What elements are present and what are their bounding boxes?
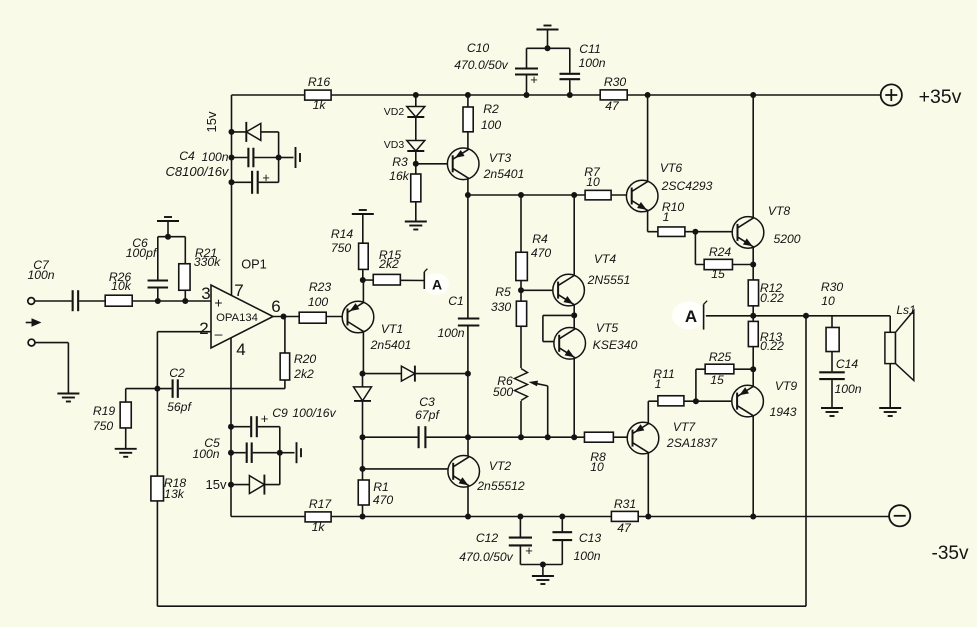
svg-text:100: 100 <box>308 295 329 309</box>
svg-text:OP1: OP1 <box>241 257 267 272</box>
wire VT3 base <box>416 163 453 165</box>
capacitor C1 <box>457 318 481 327</box>
wire input 2 lead <box>35 342 69 344</box>
node supply cluster right <box>276 155 282 161</box>
svg-text:2n55512: 2n55512 <box>476 479 525 493</box>
ground C4 cluster <box>296 147 301 168</box>
svg-text:A: A <box>432 277 442 293</box>
label R20 <box>294 352 317 366</box>
wire VT1 collector to C1 diode run <box>363 373 468 375</box>
wire C6 lower leg <box>157 288 159 302</box>
svg-text:2n5401: 2n5401 <box>370 338 412 352</box>
value R15 2k2 <box>378 257 399 271</box>
label R11 <box>653 367 674 381</box>
wire VT3 collector to mid rail <box>467 179 469 195</box>
potentiometer R6 <box>514 368 528 401</box>
svg-text:KSE340: KSE340 <box>593 338 638 352</box>
svg-text:C8100/16v: C8100/16v <box>166 164 230 179</box>
wire C6/R21 node runs <box>158 236 186 238</box>
value R1 470 <box>373 493 394 507</box>
node mid rail VT4 <box>571 192 577 198</box>
svg-text:R31: R31 <box>614 497 636 511</box>
node A output halo <box>672 302 706 330</box>
label VT1 <box>381 322 403 336</box>
node VT8 collector rail <box>750 92 756 98</box>
wire R21 lower leg <box>184 290 186 301</box>
wire C13 lower leg <box>561 540 563 565</box>
label VT3 <box>489 151 512 165</box>
wire C12-C13 ground link <box>520 564 562 566</box>
wire output node A rail <box>704 315 891 317</box>
svg-text:C4: C4 <box>179 149 195 163</box>
value VT6 2SC4293 <box>661 179 713 193</box>
resistor R26 <box>105 295 132 306</box>
svg-text:C10: C10 <box>467 41 490 55</box>
label VT5 <box>596 321 619 335</box>
value VT9 1943 <box>769 405 796 419</box>
svg-text:47: 47 <box>617 521 632 535</box>
label R30 top <box>604 75 627 89</box>
node C2 R18 pin2 <box>154 386 160 392</box>
value C5 100n <box>192 447 219 461</box>
label C9 <box>272 406 288 420</box>
svg-text:C14: C14 <box>836 357 859 371</box>
value VT3 2n5401 <box>483 167 525 181</box>
svg-text:C1: C1 <box>448 294 464 308</box>
value R25 15 <box>710 373 724 387</box>
label VT2 <box>489 459 512 473</box>
value VT5 KSE340 <box>593 338 638 352</box>
value C11 <box>578 56 605 70</box>
node VT6 collector rail <box>645 92 651 98</box>
node R21 input <box>182 298 188 304</box>
node R11 R25 <box>693 398 699 404</box>
wire op-amp output <box>273 316 348 318</box>
plus C8 <box>262 170 270 185</box>
plus C10 <box>530 72 538 87</box>
op-amp U1 OPA134 triangle <box>211 285 273 348</box>
diode VD3 <box>407 141 425 152</box>
diode supply -15v <box>249 475 264 495</box>
pin 6 label <box>271 297 280 316</box>
label C2 <box>169 366 185 380</box>
capacitor C4 <box>247 147 254 169</box>
svg-text:VT1: VT1 <box>381 322 403 336</box>
node bias left end <box>360 434 366 440</box>
svg-text:R30: R30 <box>604 75 627 89</box>
value R11 1 <box>655 377 662 391</box>
svg-text:1k: 1k <box>312 520 326 534</box>
svg-text:+: + <box>214 295 222 311</box>
node diode run right <box>465 371 471 377</box>
node A output tick <box>704 301 708 330</box>
wire R12 vertical <box>752 265 754 316</box>
wire op-amp pin4 vertical <box>230 338 232 517</box>
svg-text:16k: 16k <box>389 169 410 183</box>
capacitor C3 <box>418 425 427 449</box>
value R17 1k <box>312 520 326 534</box>
svg-text:470.0/50v: 470.0/50v <box>459 550 513 564</box>
label R16 <box>308 75 331 89</box>
svg-text:100n: 100n <box>573 549 600 563</box>
value R31 47 <box>617 521 632 535</box>
label C4 <box>179 149 195 163</box>
svg-text:67pf: 67pf <box>415 408 440 422</box>
wire C10 leg <box>526 48 528 95</box>
wire feedback bottom run <box>157 605 806 607</box>
wire PSU ground stem <box>542 565 544 576</box>
wire pin2 down to C2 node <box>156 332 158 389</box>
label C7 <box>33 258 50 272</box>
wire speaker bottom leg <box>889 364 891 408</box>
svg-text:330k: 330k <box>194 255 221 269</box>
label C14 <box>836 357 859 371</box>
resistor R30 top <box>600 90 627 100</box>
label VT6 <box>660 161 683 175</box>
ground R3 <box>405 222 427 230</box>
svg-text:R5: R5 <box>495 285 511 299</box>
resistor R25 <box>705 364 734 374</box>
svg-text:2n5401: 2n5401 <box>483 167 525 181</box>
svg-text:1: 1 <box>655 377 662 391</box>
svg-text:1k: 1k <box>313 98 327 112</box>
value R5 330 <box>491 300 512 314</box>
wire C5 link <box>231 452 280 454</box>
label C11 <box>579 42 600 56</box>
svg-text:2SA1837: 2SA1837 <box>666 436 718 450</box>
wire C6 upper leg <box>157 237 159 281</box>
value VT8 5200 <box>773 232 800 246</box>
plus C12 <box>525 543 533 558</box>
node bias R6 <box>518 434 524 440</box>
wire VT2 base lead <box>363 468 454 470</box>
svg-text:330: 330 <box>491 300 512 314</box>
ground R14 <box>352 210 374 218</box>
value R30 top 47 <box>605 99 620 113</box>
value VT4 2N5551 <box>587 273 631 287</box>
wire R14 lower leg <box>362 269 364 280</box>
value VT1 2n5401 <box>370 338 412 352</box>
node bias VT5 emitter <box>571 434 577 440</box>
svg-text:750: 750 <box>331 241 352 255</box>
wire feedback vertical right <box>805 316 807 606</box>
wire R6 wiper drop <box>547 386 549 437</box>
node rail VT7 collector <box>645 514 651 520</box>
wire speaker top leg <box>889 316 891 333</box>
node C12 C13 ground <box>540 562 546 568</box>
svg-text:100n: 100n <box>437 326 464 340</box>
wire VT9 collector <box>752 416 754 517</box>
node diode run left <box>360 371 366 377</box>
terminal -35v <box>889 505 910 526</box>
svg-text:+: + <box>530 72 538 87</box>
wire R24 run <box>695 264 753 266</box>
node VD3-R3-VT3 base <box>413 161 419 167</box>
value R7 10 <box>586 175 600 189</box>
node mid rail R4 <box>518 192 524 198</box>
label R17 <box>309 497 333 511</box>
node R14 R15 VT1 emitter <box>360 277 366 283</box>
svg-text:R30: R30 <box>821 280 844 294</box>
wire input 2 ground drop <box>67 343 69 393</box>
svg-text:VD2: VD2 <box>384 106 405 118</box>
wire R19 to ground <box>125 428 127 448</box>
node rail C12 <box>517 514 523 520</box>
value C3 67pf <box>415 408 440 422</box>
wire C13 upper leg <box>561 517 563 533</box>
resistor R15 <box>373 274 400 285</box>
label R1 <box>373 480 389 494</box>
label +35v <box>919 86 962 108</box>
terminal +35v <box>881 84 902 105</box>
capacitor C13 <box>551 531 573 541</box>
wire VT4 base lead <box>521 289 558 291</box>
ground C14 <box>821 408 843 416</box>
node output feedback <box>803 313 809 319</box>
op-amp label OP1 <box>241 257 267 272</box>
node C6 R21 ground <box>165 234 171 240</box>
wire bottom -35v rail <box>231 516 889 518</box>
pin 7 label <box>234 281 243 300</box>
wire lower cluster right link <box>279 427 281 485</box>
svg-text:10k: 10k <box>111 279 132 293</box>
svg-text:0.22: 0.22 <box>760 291 784 305</box>
resistor R17 <box>305 512 331 522</box>
label R13 <box>760 330 783 344</box>
svg-text:13k: 13k <box>164 487 185 501</box>
wire VT4 collector <box>573 195 575 276</box>
diode supply +15v <box>246 122 260 142</box>
ground R19 <box>115 449 137 457</box>
wire VT8 collector <box>752 95 754 218</box>
capacitor C9 electrolytic <box>250 415 258 438</box>
label R24 <box>709 245 732 259</box>
label R2 <box>483 102 499 116</box>
wire R25 to R11 node <box>695 369 697 401</box>
transistor VT9 1943 <box>732 385 764 417</box>
diode VD2 <box>407 107 425 118</box>
pin 3 label <box>201 284 210 303</box>
wire R13 vertical <box>752 316 754 369</box>
svg-text:15v: 15v <box>206 477 227 492</box>
resistor R2 <box>463 107 473 132</box>
svg-text:3: 3 <box>201 284 210 303</box>
transistor VT2 2n5551 <box>448 456 480 488</box>
svg-text:C9: C9 <box>272 406 288 420</box>
node VD2 top rail <box>413 92 419 98</box>
value R3 16k <box>389 169 410 183</box>
value C7 100n <box>27 268 54 282</box>
wire R30 output branch <box>831 316 833 372</box>
capacitor C11 <box>559 73 582 80</box>
wire C6 ground stem <box>167 225 169 237</box>
value R10 1 <box>663 210 670 224</box>
svg-text:4: 4 <box>236 340 245 359</box>
svg-text:–: – <box>215 326 223 342</box>
node VT2 base <box>360 466 366 472</box>
wire C4 link <box>232 157 279 159</box>
transistor VT4 2N5551 <box>553 274 585 306</box>
value R4 470 <box>531 246 552 260</box>
wire C14 lower leg <box>831 379 833 407</box>
wire R2 / VT3 emitter vertical <box>467 95 469 149</box>
svg-text:1943: 1943 <box>769 405 796 419</box>
svg-text:2SC4293: 2SC4293 <box>661 179 713 193</box>
transistor VT7 2SA1837 <box>627 422 659 454</box>
capacitor C10 electrolytic <box>514 68 539 76</box>
resistor R1 <box>358 480 369 505</box>
resistor R19 <box>120 402 131 428</box>
node op-amp output R20 <box>281 314 287 320</box>
resistor R20 <box>280 353 290 380</box>
pin 4 label <box>236 340 245 359</box>
resistor R8 <box>584 432 613 442</box>
value R12 0.22 <box>760 291 784 305</box>
node R13 VT9 emitter <box>750 366 756 372</box>
value C6 100pf <box>126 246 158 260</box>
svg-text:C12: C12 <box>476 531 499 545</box>
svg-text:15: 15 <box>711 267 725 281</box>
wire R4 branch vertical <box>520 195 522 437</box>
wire left supply rail to op-amp pin 7 <box>231 95 233 296</box>
wire VT7 emitter <box>647 401 649 423</box>
svg-text:+35v: +35v <box>919 86 962 108</box>
node lower cluster right <box>277 450 283 456</box>
svg-text:Ls1: Ls1 <box>896 303 915 317</box>
svg-text:VD3: VD3 <box>384 139 405 151</box>
ground C10 C11 <box>537 26 559 34</box>
wire supply cluster right link top <box>278 132 280 182</box>
svg-text:56pf: 56pf <box>167 400 192 414</box>
wire R15 run <box>363 279 425 282</box>
svg-text:+: + <box>261 411 269 426</box>
svg-text:7: 7 <box>234 281 243 300</box>
node C10 rail <box>524 92 530 98</box>
capacitor C7 <box>72 289 80 312</box>
svg-text:15: 15 <box>710 373 724 387</box>
resistor R31 <box>611 511 638 521</box>
resistor R10 <box>658 227 685 237</box>
wire C4 ground tap <box>279 157 294 159</box>
svg-text:C2: C2 <box>169 366 185 380</box>
svg-text:R4: R4 <box>532 232 548 246</box>
svg-text:1: 1 <box>663 210 670 224</box>
svg-text:+: + <box>262 170 270 185</box>
input signal arrow <box>26 318 42 326</box>
svg-text:0.22: 0.22 <box>760 339 784 353</box>
node VT8 emitter R24 <box>750 262 756 268</box>
value R18 13k <box>164 487 185 501</box>
wire VT5 base lead <box>543 341 559 343</box>
svg-text:VT4: VT4 <box>594 252 617 266</box>
resistor R21 <box>179 264 190 291</box>
wire C5 ground tap <box>280 452 295 454</box>
ground PSU C12 C13 <box>532 576 554 584</box>
svg-text:470.0/50v: 470.0/50v <box>454 58 508 72</box>
value R8 10 <box>590 460 604 474</box>
wire C9 link <box>231 426 280 428</box>
input terminal 1 <box>28 298 35 305</box>
svg-text:A: A <box>685 307 697 326</box>
label R15 <box>379 248 402 262</box>
wire R11 run <box>648 400 737 402</box>
node rail VT9 collector <box>750 514 756 520</box>
node supply caps ground <box>545 45 551 51</box>
svg-text:100/16v: 100/16v <box>292 406 336 420</box>
label C8 <box>166 164 230 179</box>
wire VT6 collector <box>647 95 649 181</box>
svg-text:100n: 100n <box>27 268 54 282</box>
label A mid <box>432 277 442 293</box>
label -35v <box>932 543 969 564</box>
node R4 R5 VT4 base <box>518 287 524 293</box>
wire input 1 to C7 <box>35 300 73 302</box>
svg-text:10: 10 <box>590 460 604 474</box>
node rail C13 <box>559 514 565 520</box>
label R14 <box>331 227 354 241</box>
node mid rail C1 <box>465 192 471 198</box>
label C3 <box>419 395 435 409</box>
svg-text:100pf: 100pf <box>126 246 158 260</box>
label R21 <box>195 246 217 260</box>
transistor VT3 2n5401 <box>447 148 479 180</box>
wire C11 leg <box>569 48 571 95</box>
svg-text:5200: 5200 <box>773 232 800 246</box>
node A mid halo <box>423 273 449 295</box>
svg-text:470: 470 <box>531 246 552 260</box>
wire R10 run <box>648 231 738 233</box>
ground C5 cluster <box>297 442 302 463</box>
resistor R3 <box>411 174 421 202</box>
resistor R12 <box>748 280 758 306</box>
wire VT8 emitter <box>752 247 754 265</box>
node bias C1 <box>465 434 471 440</box>
svg-text:47: 47 <box>605 99 620 113</box>
svg-text:10: 10 <box>586 175 600 189</box>
wire bias run C3 <box>363 436 633 438</box>
wire C12 lower leg <box>519 545 521 564</box>
value C4 100n <box>201 150 228 164</box>
value R13 0.22 <box>760 339 784 353</box>
label C12 <box>476 531 499 545</box>
svg-text:R24: R24 <box>709 245 732 259</box>
ground C6 R21 <box>157 217 179 225</box>
svg-text:R3: R3 <box>392 155 408 169</box>
value R20 2k2 <box>293 367 314 381</box>
label R30 output <box>821 280 844 294</box>
wire R10 node to R24 <box>694 232 696 265</box>
wire C8 link <box>232 181 279 183</box>
value R26 10k <box>111 279 132 293</box>
label R18 <box>164 476 187 490</box>
label R25 <box>709 350 732 364</box>
wire VT9 emitter <box>752 369 754 386</box>
wire VT5 emitter <box>573 358 575 437</box>
svg-text:6: 6 <box>271 297 280 316</box>
resistor R30 output <box>826 327 839 351</box>
label C1 <box>448 294 464 308</box>
diode to C1 <box>401 366 415 382</box>
svg-text:R16: R16 <box>308 75 331 89</box>
wire R18 vertical <box>156 389 158 607</box>
wire op-amp pin2 lead <box>157 331 211 333</box>
resistor R16 <box>305 90 331 100</box>
wire R3 vertical to ground <box>415 164 417 221</box>
value R6 500 <box>493 385 514 399</box>
wire C7 to R26 to op-amp <box>78 300 211 302</box>
node C11 rail <box>567 92 573 98</box>
svg-text:+: + <box>525 543 533 558</box>
